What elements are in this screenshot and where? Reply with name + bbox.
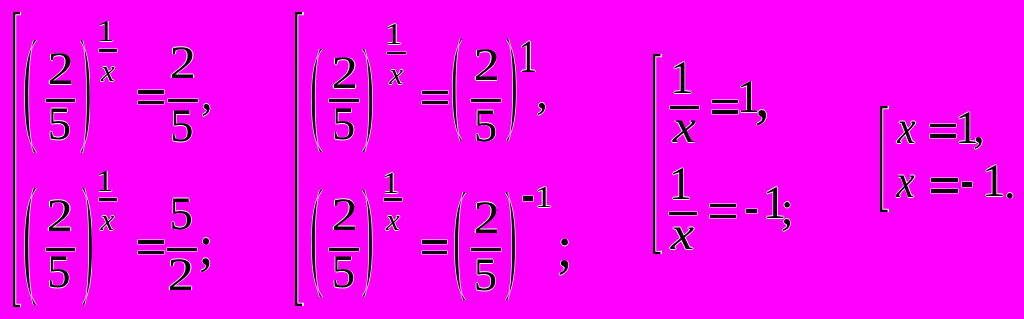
b2e2 rhs numerator 2	[472, 195, 499, 242]
b4e2 rhs 1	[981, 158, 1005, 205]
b2e2 equals	[422, 240, 448, 243]
b1e1 exponent denominator x	[100, 55, 114, 86]
b1e2 exponent numerator 1	[95, 165, 113, 196]
b1e1 rhs numerator 2	[169, 40, 196, 87]
b3e1 denominator x	[672, 104, 695, 151]
b2e1 rhs numerator 2	[472, 42, 499, 89]
b1e1 exponent bar	[99, 49, 118, 52]
b2e1 rhs denominator 5	[473, 103, 497, 150]
b1e1 left paren	[24, 40, 37, 153]
b2e1 rhs right paren	[506, 39, 517, 141]
b4e2 equals	[931, 178, 958, 182]
b2e1 numerator 2	[331, 50, 358, 97]
b3e2 rhs 1	[762, 180, 786, 227]
b2e2 rhs denominator 5	[473, 252, 497, 299]
b2e2 exponent bar	[384, 198, 402, 201]
b4e1 rhs 1	[954, 105, 978, 152]
b2e1 right paren	[362, 49, 373, 152]
b3e2 equals	[710, 204, 736, 207]
b2e2 exponent numerator 1	[381, 167, 399, 198]
b3e1 fraction bar	[670, 106, 699, 109]
b3e1 rhs 1	[736, 74, 760, 121]
b4e1 comma	[972, 104, 984, 151]
b4e1 equals	[930, 124, 957, 128]
b1e2 exponent bar	[99, 198, 118, 201]
b1e2 left paren	[24, 188, 37, 305]
b1e1 rhs denominator 5	[169, 103, 193, 150]
b2e2 denominator 5	[331, 249, 355, 296]
b2e1 denominator 5	[331, 101, 355, 148]
b2e2 rhs left paren	[454, 192, 466, 301]
b3e1 comma	[754, 66, 769, 126]
b2e2 fraction bar	[329, 248, 359, 251]
system bracket 1	[13, 12, 21, 307]
b4e2 x	[896, 159, 914, 206]
b3e2 numerator 1	[668, 161, 692, 208]
b1e1 numerator 2	[46, 46, 73, 93]
b1e2 rhs denominator 2	[167, 252, 194, 299]
system bracket 4	[880, 106, 889, 212]
b1e1 exponent numerator 1	[96, 15, 114, 46]
b2e2 superscript minus	[523, 196, 533, 200]
b4e2 minus	[962, 182, 973, 187]
b3e2 semicolon	[780, 186, 793, 233]
b3e2 minus	[746, 209, 757, 213]
b2e2 rhs fraction bar	[471, 248, 501, 251]
b1e2 rhs numerator 5	[169, 191, 193, 238]
b1e2 numerator 2	[46, 193, 73, 240]
b1e1 comma	[200, 71, 212, 118]
b1e2 semicolon	[198, 218, 213, 273]
b4e1 x	[897, 105, 915, 152]
b1e2 rhs fraction bar	[167, 248, 197, 251]
b1e2 right paren	[82, 188, 93, 305]
b3e1 numerator 1	[669, 55, 693, 102]
b3e2 fraction bar	[669, 212, 698, 215]
system bracket 2	[295, 12, 303, 306]
b1e1 rhs fraction bar	[168, 99, 198, 102]
b1e2 denominator 5	[46, 249, 70, 296]
b2e1 fraction bar	[329, 99, 359, 102]
b2e1 exponent numerator 1	[384, 18, 402, 49]
b1e2 exponent denominator x	[100, 204, 114, 235]
b1e2 equals	[138, 240, 164, 243]
b2e1 exponent bar	[387, 52, 406, 55]
b2e1 exponent denominator x	[389, 58, 403, 89]
b2e2 semicolon	[556, 218, 572, 276]
b2e2 rhs right paren	[505, 192, 516, 301]
b3e2 denominator x	[670, 211, 693, 258]
b1e1 denominator 5	[47, 101, 71, 148]
b2e2 numerator 2	[330, 192, 357, 239]
b1e2 fraction bar	[46, 248, 75, 251]
b2e1 left paren	[311, 49, 322, 152]
b2e1 equals	[422, 91, 448, 94]
b4e2 period	[1003, 160, 1015, 207]
b2e2 exponent denominator x	[385, 204, 399, 235]
b2e2 left paren	[311, 190, 322, 297]
b2e2 superscript 1	[534, 181, 552, 212]
system bracket 3	[653, 54, 662, 254]
b1e1 equals	[138, 90, 164, 93]
b1e1 fraction bar	[46, 99, 75, 102]
b2e1 superscript 1	[518, 34, 536, 81]
b2e1 rhs left paren	[452, 39, 463, 141]
b2e1 rhs fraction bar	[471, 99, 500, 102]
b2e1 comma	[536, 70, 548, 117]
b2e2 right paren	[362, 190, 373, 297]
b1e1 right paren	[80, 40, 91, 153]
b3e1 equals	[712, 100, 738, 104]
